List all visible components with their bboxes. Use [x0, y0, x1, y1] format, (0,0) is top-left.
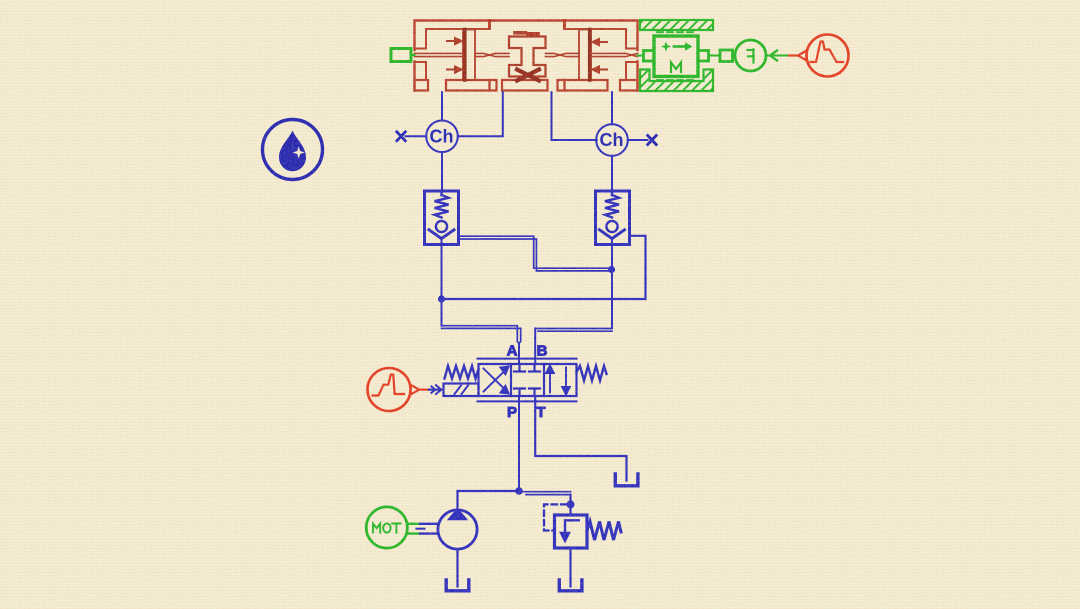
signal generator circle (top right)	[807, 35, 849, 77]
spring right	[577, 366, 607, 381]
pipe to relief valve top	[569, 495, 571, 515]
blue input arrow to solenoid	[429, 385, 441, 394]
guide rail bottom (green hatched U-channel)	[640, 70, 713, 92]
pipe branch to valve port A (double with U end)	[442, 326, 521, 364]
shaft link to force sensor	[709, 50, 733, 62]
valve rails (proportional stripes)	[478, 359, 577, 402]
bypass pipe FC1 side to FC2 line (double)	[459, 236, 612, 271]
motor shaft coupling	[407, 524, 438, 534]
wire cylinder port 2 down	[458, 92, 503, 136]
wire Ch1 to FC1	[441, 152, 443, 191]
wire Ch2 to FC2	[611, 156, 613, 191]
pipe branch to valve port B (double)	[535, 329, 612, 365]
pilot signal generator circle (red)	[368, 368, 411, 411]
piston left	[463, 30, 475, 81]
pipe P port down	[518, 396, 520, 491]
junction dot relief	[567, 500, 575, 508]
port labels P T	[507, 404, 546, 421]
valve cell 3 parallel arrows	[546, 366, 570, 395]
M box left port	[638, 51, 655, 62]
directional valve 4/3 body	[479, 364, 577, 396]
pressure arrows left chamber	[447, 38, 462, 73]
position sensor Ch2	[596, 124, 628, 156]
tank T	[615, 474, 638, 486]
electric motor MOT circle (green)	[366, 507, 407, 548]
pipe pump to tank	[456, 549, 458, 586]
pressure arrows right chamber	[593, 39, 608, 73]
junction dot on FC2 line	[608, 266, 615, 273]
load block (green, left rod end)	[391, 49, 415, 62]
pipe relief to tank	[569, 548, 571, 587]
hydraulic fluid drop icon	[263, 120, 323, 180]
valve cell 2 blocked ports	[514, 364, 540, 396]
signal generator wire (red)	[789, 51, 807, 61]
spring left	[445, 366, 479, 379]
pump circle	[438, 509, 477, 549]
FC2 ball check	[600, 221, 625, 245]
cylinder inner chamber walls	[415, 29, 638, 80]
wire cylinder port 3 down	[552, 92, 597, 140]
flow control valve FC1 body	[425, 191, 459, 245]
signal arrow into F	[767, 51, 790, 61]
x terminal left	[397, 132, 426, 141]
pipe T port to tank	[535, 396, 626, 481]
M label	[671, 63, 681, 73]
piston rod (double line with couplings)	[415, 53, 638, 56]
M box right port	[698, 51, 709, 62]
junction dot P line	[515, 487, 523, 495]
linear motor M box	[654, 32, 698, 80]
port labels A B	[507, 343, 548, 360]
junction dot on FC1 line	[438, 295, 445, 302]
relief valve pilot dashed	[544, 504, 567, 530]
pipe FC1 down to A-branch	[441, 245, 443, 326]
I-beam top dashes	[515, 33, 538, 34]
FC2 spring	[605, 191, 619, 218]
pilot signal wire and triangle	[411, 385, 429, 395]
wire cylinder port 4 to Ch2	[611, 92, 613, 124]
tank pump	[446, 580, 469, 591]
guide rail top (green hatched)	[640, 20, 713, 30]
force sensor F circle	[735, 40, 766, 71]
relief valve body	[555, 515, 588, 548]
hydraulic master cylinder housing (red, outer shell)	[415, 21, 638, 91]
proportional solenoid box	[444, 384, 479, 397]
FC1 spring	[435, 191, 449, 218]
valve cell 1 crossed arrows	[484, 367, 509, 394]
pipe P to pump	[458, 491, 520, 510]
cylinder bottom port blocks	[415, 80, 638, 91]
position sensor Ch1	[426, 121, 458, 153]
M box arrows	[661, 42, 693, 52]
x terminal right	[628, 136, 656, 145]
wire cylinder port 1 to Ch1	[441, 92, 443, 120]
X anchor mount	[517, 70, 539, 81]
pipe FC2 down to B-branch	[611, 245, 613, 328]
piston right	[579, 30, 591, 81]
pipe P to relief valve (double)	[519, 492, 571, 495]
bypass pipe FC2 side to FC1 line	[442, 236, 646, 299]
relief valve spring	[587, 522, 621, 541]
central feedback I-beam	[509, 37, 546, 77]
flow control valve FC2 body	[596, 191, 630, 245]
tank relief	[559, 580, 582, 591]
FC1 ball check	[429, 221, 454, 245]
